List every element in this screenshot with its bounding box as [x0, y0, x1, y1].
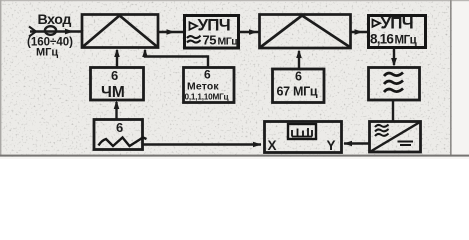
- svg-text:Y: Y: [327, 138, 336, 153]
- svg-text:6: 6: [116, 120, 123, 135]
- wire ЧМ to mixer1: [116, 50, 118, 68]
- arrowhead into ЧМ bottom: [114, 101, 120, 110]
- sawtooth symbol: [99, 138, 147, 147]
- marker generator Г Меток block: [184, 68, 235, 103]
- arrowhead into mixer1 bottom left: [114, 49, 120, 58]
- svg-text:Меток: Меток: [187, 82, 219, 93]
- IF amplifier УПЧ1 75МГц block: [185, 16, 239, 49]
- svg-text:6: 6: [111, 68, 118, 83]
- arrowhead into filter top: [391, 58, 397, 67]
- svg-text:75: 75: [203, 33, 217, 48]
- arrowhead into mixer2: [249, 29, 258, 35]
- detector block: [370, 122, 421, 153]
- arrowhead into indicator left: [253, 142, 262, 148]
- svg-text:6: 6: [204, 68, 211, 82]
- paper background: [0, 0, 469, 159]
- arrowhead into indicator right: [344, 141, 353, 147]
- wire detector to indicator Y: [344, 142, 369, 144]
- arrowhead into mixer2 bottom: [296, 50, 302, 59]
- white margin right of right rule: [452, 0, 469, 159]
- svg-text:УПЧ: УПЧ: [381, 14, 413, 33]
- detector dc symbol: [398, 142, 414, 146]
- wave symbol УПЧ1: [187, 36, 201, 43]
- svg-text:МГц: МГц: [218, 36, 239, 48]
- mixer 2 block: [260, 15, 351, 49]
- amp triangle symbol УПЧ2: [373, 20, 381, 27]
- generator Г 67 МГц block: [273, 69, 325, 103]
- white margin below bottom rule: [0, 157, 469, 160]
- input coax symbol (ellipse): [45, 26, 56, 35]
- wire Г67 to mixer2: [298, 51, 300, 69]
- input chevron: [29, 27, 36, 37]
- filter wave 3: [384, 89, 403, 93]
- sweep generator Г block: [94, 120, 143, 150]
- page frame right rule: [450, 0, 452, 155]
- arrowhead into УПЧ1: [167, 29, 176, 35]
- wire Меток to mixer1 (up, left, up): [145, 50, 208, 68]
- svg-text:6: 6: [295, 70, 302, 84]
- svg-text:67 МГц: 67 МГц: [277, 85, 318, 99]
- svg-text:ЧМ: ЧМ: [101, 84, 125, 101]
- wire sweep gen to ЧМ: [115, 102, 117, 120]
- wire mixer2 to УПЧ2: [351, 31, 368, 33]
- wire filter down to detector: [392, 100, 394, 121]
- input arrowhead: [65, 29, 74, 35]
- svg-text:X: X: [268, 138, 277, 153]
- input wire: [30, 30, 82, 32]
- page frame top edge: [0, 0, 469, 1]
- wire sweep gen to indicator X: [143, 143, 262, 145]
- mixer 1 block: [82, 15, 158, 48]
- indicator (CRT display) block: [265, 122, 342, 153]
- filter wave 1: [384, 73, 403, 77]
- svg-text:МГц: МГц: [36, 47, 58, 59]
- bandpass filter block: [369, 68, 420, 101]
- amp triangle symbol УПЧ1: [190, 22, 198, 29]
- svg-text:8,16: 8,16: [370, 32, 394, 47]
- arrowhead into УПЧ2: [355, 29, 364, 35]
- wire mixer1 to УПЧ1: [158, 31, 184, 33]
- page frame bottom rule: [0, 155, 469, 157]
- wire УПЧ2 down to filter: [393, 48, 395, 66]
- screen trace bars: [292, 128, 312, 137]
- svg-text:Вход: Вход: [38, 12, 72, 28]
- page frame left edge: [0, 0, 1, 156]
- svg-text:МГц: МГц: [395, 35, 417, 47]
- detector diagonal: [371, 122, 421, 152]
- scan speckle texture: [0, 0, 469, 159]
- filter wave 2: [384, 81, 403, 85]
- svg-text:0,1,1,10МГц: 0,1,1,10МГц: [185, 93, 229, 102]
- wire УПЧ1 to mixer2: [239, 31, 259, 33]
- indicator screen: [288, 124, 316, 139]
- IF amplifier УПЧ2 8,16МГц block: [369, 16, 426, 48]
- arrowhead into mixer1 bottom right: [142, 49, 148, 58]
- generator Г ЧМ block: [91, 68, 144, 101]
- detector wave symbol: [375, 125, 389, 137]
